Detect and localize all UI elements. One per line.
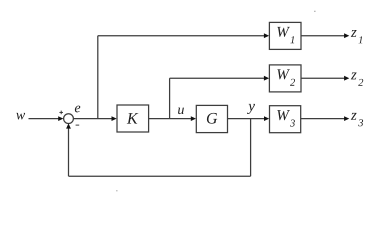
label W2 sub2 — [290, 79, 295, 86]
arrowhead into G — [191, 116, 196, 121]
wire W3 output — [301, 118, 345, 120]
label z3 z — [351, 113, 357, 120]
label z1 sub1 — [359, 36, 363, 43]
arrowhead into junction (w) — [58, 116, 63, 121]
wire K to G — [149, 118, 192, 120]
label W3 W — [277, 110, 290, 120]
speck top right — [314, 11, 316, 12]
wire branch up to W1 vertical — [97, 36, 99, 119]
wire W2 output — [301, 77, 345, 79]
wire feedback tap down — [250, 119, 252, 177]
label z3 sub3 — [358, 119, 363, 126]
label u — [178, 108, 184, 115]
label z2 sub2 — [358, 79, 363, 86]
wire feedback bottom — [69, 175, 251, 177]
block W2 — [269, 65, 301, 92]
label G — [207, 113, 217, 124]
label z2 z — [351, 73, 357, 80]
arrowhead into W3 — [264, 116, 269, 121]
arrowhead into K — [112, 116, 117, 121]
wire feedback up to junction — [68, 128, 70, 177]
wire w input — [29, 118, 60, 120]
arrowhead z3 — [344, 116, 349, 121]
arrowhead z1 — [344, 33, 349, 38]
wire branch up to W2 vertical — [169, 78, 171, 118]
arrowhead into W2 — [264, 76, 269, 81]
label e — [75, 106, 80, 113]
minus sign — [76, 124, 80, 126]
label W3 sub3 — [290, 120, 295, 127]
label K — [127, 113, 139, 123]
wire branch to W2 horizontal — [170, 77, 265, 79]
arrowhead into W1 — [264, 33, 269, 38]
wire junction to K — [73, 118, 112, 120]
arrowhead z2 — [344, 76, 349, 81]
block G — [196, 105, 227, 132]
label W2 W — [277, 69, 290, 79]
wire G to W3 — [228, 118, 266, 120]
label z1 z — [351, 30, 357, 37]
block W1 — [269, 22, 301, 49]
plus sign — [59, 111, 63, 115]
block K — [117, 105, 149, 132]
label W1 W — [277, 27, 290, 37]
arrowhead into junction (feedback) — [66, 123, 71, 128]
label W1 sub1 — [290, 36, 294, 43]
summing junction — [64, 114, 74, 124]
label y — [247, 104, 255, 114]
wire W1 output — [301, 35, 345, 37]
block W3 — [270, 106, 301, 133]
label w — [16, 113, 25, 120]
wire branch to W1 horizontal — [98, 35, 265, 37]
speck bottom middle — [116, 190, 118, 191]
